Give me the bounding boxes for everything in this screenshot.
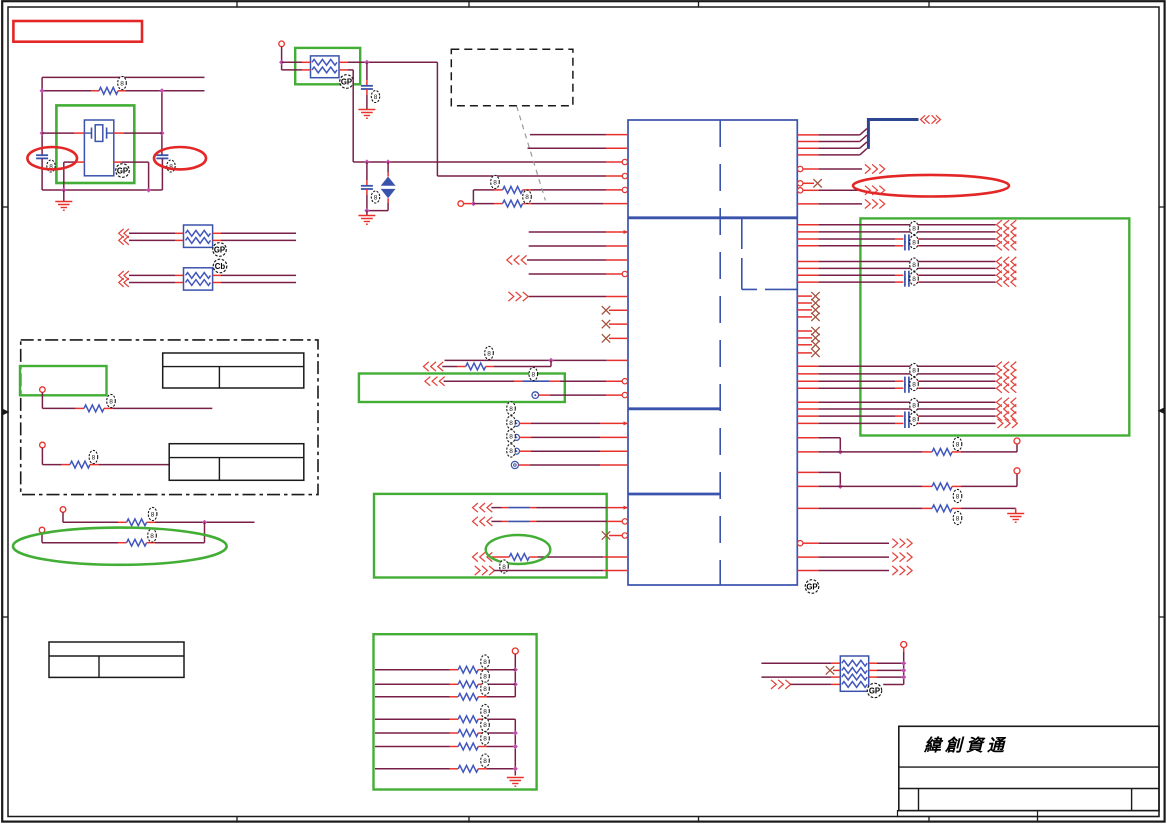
svg-text:8: 8 <box>151 511 155 518</box>
junction pin pair 2 <box>838 484 843 489</box>
wire to IC pin L8 <box>529 245 606 247</box>
pull-up terminal <box>512 648 518 654</box>
wire to IC pin L26 <box>494 570 603 572</box>
border centering arrow left y=412 <box>2 410 8 414</box>
terminal pull-up 1 <box>1014 438 1020 444</box>
wire pin R31 <box>797 556 818 558</box>
net label for pin L21 wire <box>507 444 516 457</box>
wire IC pin R17 through green box <box>797 365 818 367</box>
wire IC pin R9 through green box <box>797 224 818 226</box>
svg-text:8: 8 <box>150 533 154 540</box>
input chevrons for pin L16 <box>425 377 430 386</box>
svg-text:8: 8 <box>912 239 916 246</box>
row2 wire down and right <box>41 448 43 465</box>
IC U1 center dashed partition line <box>719 120 721 585</box>
wire IC pin R1 to bus with entry <box>797 134 818 136</box>
IC pin L16 bubble <box>622 379 627 384</box>
title block bottom strip <box>898 811 1160 817</box>
IC pin R30 bubble <box>798 541 803 546</box>
svg-text:GP: GP <box>869 686 880 695</box>
wire IC pin R15 through green box with series capacitor <box>797 274 818 276</box>
svg-text:8: 8 <box>509 406 513 413</box>
IC U1 sub-block boundary vertical <box>741 218 743 290</box>
resistor pack RP2 right wires <box>213 274 221 276</box>
pull resistor row 4 <box>375 718 450 720</box>
bottom-left revision table <box>49 642 184 677</box>
crystal pin 2 wire <box>114 132 124 134</box>
RP3 GP label <box>867 683 881 697</box>
resistor label 1 <box>953 437 962 450</box>
wire pin R26 with resistor to terminal <box>797 451 818 453</box>
wire IC pin R2 to bus with entry <box>797 141 818 143</box>
junction on rail <box>61 187 66 192</box>
svg-text:8: 8 <box>912 262 916 269</box>
svg-text:8: 8 <box>109 398 113 405</box>
capacitor C3 to ground <box>366 62 368 80</box>
svg-text:8: 8 <box>487 350 491 357</box>
title block cell divider x=1131.6 <box>1131 789 1133 811</box>
wire pack output bottom <box>339 69 348 71</box>
resistor pack RP2 left wires <box>129 274 175 276</box>
wire to IC pin L18 <box>520 422 532 424</box>
wire IC pin R11 through green box with series capacitor <box>797 238 818 240</box>
pull resistor row 3 <box>375 696 450 698</box>
IC U1 internal divider 2 (left half) <box>628 407 720 410</box>
IC U1 reference label GP <box>805 580 819 594</box>
wire pin R32 <box>797 570 818 572</box>
border tick top x=237 <box>236 1 238 7</box>
no-connect pin Rx3 <box>797 309 812 311</box>
wire to IC pin L23 with blue segment <box>491 520 501 522</box>
svg-text:8: 8 <box>509 448 513 455</box>
border tick right y=207 <box>1159 206 1165 208</box>
no-connect pin Rx6 <box>797 337 812 339</box>
border tick bottom x=929 <box>928 817 930 822</box>
tie vertical between rows <box>204 522 206 542</box>
output chevrons pin L26 <box>475 566 480 575</box>
crystal circuit top wire <box>42 76 204 78</box>
ground stem 2 <box>366 211 368 216</box>
svg-text:8: 8 <box>483 758 487 765</box>
wire to IC pin L19 <box>520 436 532 438</box>
small blue node circle pin L17 <box>532 392 539 399</box>
border tick bottom x=469 <box>468 817 470 822</box>
wire pin R8 <box>797 203 818 205</box>
wire to IC pin L20 <box>520 450 532 452</box>
svg-text:8: 8 <box>374 94 378 101</box>
left capacitor C1 <box>36 154 48 156</box>
wire to IC pin L22 with blue segment <box>491 507 501 509</box>
pull-down rail <box>514 719 516 775</box>
pull-up rail right <box>901 642 907 648</box>
junction <box>159 131 164 136</box>
border tick left y=207 <box>2 206 8 208</box>
terminal upper row <box>60 507 66 513</box>
wire IC pin R4 to bus with entry <box>797 154 818 156</box>
title block divider line 1 <box>899 766 1159 768</box>
blue node circle pin L19 <box>514 434 520 440</box>
ground for pin R29 resistor <box>1015 508 1017 513</box>
junction on rail <box>146 187 151 192</box>
svg-text:Cb: Cb <box>215 262 226 271</box>
IC pin L4 bubble <box>622 173 627 178</box>
pull resistor row 1 <box>375 669 450 671</box>
revision table column divider <box>98 656 100 677</box>
no-connect pin Rx7 <box>797 344 812 346</box>
resistor pack RP2 box <box>184 268 213 290</box>
resistor pack RP1 lines chevrons <box>119 229 124 238</box>
crystal Y1 body <box>84 120 113 176</box>
wire into pack row3 <box>761 676 831 678</box>
IC pin R7 bubble <box>798 188 803 193</box>
blue node circle pin L18 <box>514 420 520 426</box>
junction <box>40 88 45 93</box>
output chevrons pin R32 <box>892 566 897 575</box>
svg-text:8: 8 <box>483 659 487 666</box>
IC pin L24 bubble <box>622 533 627 538</box>
wire to IC pin L11 <box>529 296 606 298</box>
pull resistor row 1 label <box>481 655 490 668</box>
RP2 Cb label <box>213 259 227 273</box>
wire pin R7 <box>803 189 819 191</box>
large green annotation box right <box>860 218 1129 435</box>
junction <box>159 88 164 93</box>
series resistor pack box top middle <box>311 56 340 78</box>
IC pin L23 bubble <box>622 519 627 524</box>
wire to IC pin L21 <box>519 464 531 466</box>
svg-text:8: 8 <box>120 80 124 87</box>
pull resistor row 4 label <box>481 704 490 717</box>
vertical wire down to IC pin L4 <box>436 62 438 176</box>
svg-text:GP: GP <box>117 166 128 175</box>
svg-text:8: 8 <box>912 367 916 374</box>
wire to IC pin L9 <box>527 259 606 261</box>
terminal lower row <box>39 527 45 533</box>
border centering arrow right y=410.7 <box>1159 409 1165 413</box>
green annotation box around crystal <box>56 105 134 183</box>
input chevrons pin L23 <box>473 517 478 526</box>
junction at resistor pair <box>471 201 476 206</box>
wire row A to IC pin L15 <box>445 359 607 361</box>
wire IC pin R21 through green box <box>797 401 818 403</box>
wire to IC pin L1 <box>530 134 606 136</box>
net label for pin L18 wire <box>507 402 516 415</box>
svg-text:8: 8 <box>525 194 529 201</box>
svg-text:8: 8 <box>531 371 535 378</box>
svg-text:8: 8 <box>483 736 487 743</box>
no-connect pin Rx1 <box>797 295 812 297</box>
IC U1 internal divider 3 (left half) <box>628 493 720 496</box>
pack output wires to rail <box>869 662 877 664</box>
no-connect stub pin R6 <box>803 182 814 184</box>
crystal GP label <box>116 164 130 178</box>
junction top middle <box>279 60 284 65</box>
wire to IC pin L17 <box>539 394 550 396</box>
junction at cap C3 <box>364 60 369 65</box>
pull resistor row 7 label <box>481 754 490 767</box>
svg-text:8: 8 <box>912 416 916 423</box>
capacitor C4 <box>366 162 368 180</box>
wire IC pin R19 through green box with series capacitor <box>797 380 818 382</box>
no-connect row2 <box>826 666 834 674</box>
RP1 GP label <box>213 243 227 257</box>
svg-text:8: 8 <box>509 420 513 427</box>
resistor R-b on pin L6 line <box>473 203 494 205</box>
wire pin R27 jog down <box>797 471 818 473</box>
resistor on pin L25 line <box>491 556 509 558</box>
no-connect pin Rx8 <box>797 352 812 354</box>
net label on pin L16 line <box>529 367 538 380</box>
red ellipse highlight C2 <box>154 147 206 169</box>
terminal pull-up 2 <box>1014 468 1020 474</box>
wire to IC pin L7 <box>529 231 606 233</box>
border tick right y=617 <box>1159 616 1165 618</box>
resistor pack RP1 left wires <box>129 232 175 234</box>
wire into pack row1 <box>761 662 831 664</box>
svg-text:緯創資通: 緯創資通 <box>923 736 1008 755</box>
dash-dot annotation box left <box>21 340 318 495</box>
wire to IC pin L2 <box>528 147 607 149</box>
green annotation box bottom middle <box>374 634 537 789</box>
wire pin R30 <box>803 542 819 544</box>
wire into pack row4 <box>791 683 832 685</box>
border tick left y=617 <box>2 616 8 618</box>
wire net to IC pin L3 (from top RC node) <box>353 161 606 163</box>
row2 resistor label <box>89 450 98 463</box>
no-connect pin L24 <box>609 535 622 537</box>
wire pin R25 jog down <box>797 437 818 439</box>
table 2 in dash-dot region <box>169 444 304 481</box>
wire IC pin R18 through green box <box>797 373 818 375</box>
net label pin L26 <box>500 560 509 573</box>
C3 label <box>371 91 379 103</box>
revision table row divider <box>49 655 184 657</box>
input chevrons row B <box>423 362 428 371</box>
svg-text:8: 8 <box>912 402 916 409</box>
resistor R-a on pin L5 line <box>473 189 494 191</box>
resistor label 3 <box>953 511 962 524</box>
resistor R-a value label <box>491 175 500 188</box>
border tick bottom x=698.5 <box>698 817 700 822</box>
wire to IC pin L4 (from top-left vertical) <box>437 175 606 177</box>
no-connect pin L14 <box>609 337 628 339</box>
pull resistor row 5 label <box>481 718 490 731</box>
output chevrons pin R5 <box>865 164 870 173</box>
border tick bottom x=1037.5 <box>1037 817 1039 822</box>
resistor label <box>118 76 127 89</box>
junctions on rail <box>901 661 906 666</box>
capacitor labels group3 <box>910 363 919 376</box>
output chevrons pin R8 <box>865 199 870 208</box>
svg-text:8: 8 <box>912 276 916 283</box>
junctions on pull-up rail <box>513 667 518 672</box>
upper row wire with resistor <box>63 521 118 523</box>
junctions on pull-down rail <box>513 730 518 735</box>
svg-text:8: 8 <box>956 515 960 522</box>
wire IC pin R3 to bus with entry <box>797 147 818 149</box>
resistor pack RP2 lines chevrons <box>119 271 124 280</box>
resistor row2 <box>70 461 90 468</box>
table 1 in dash-dot region <box>163 353 304 388</box>
bus continuation chevrons <box>921 115 926 123</box>
dashed note box <box>451 49 573 105</box>
capacitor labels group4 <box>910 398 919 411</box>
border tick bottom x=237 <box>236 817 238 822</box>
IC U1 body outline <box>628 120 797 585</box>
resistor pack RP3 box <box>840 656 868 691</box>
green annotation box bottom-left of IC <box>374 494 607 578</box>
vertical wire down to RC node <box>352 70 354 162</box>
border tick top x=469 <box>468 1 470 7</box>
svg-text:GP: GP <box>341 77 352 86</box>
vertical joining resistor pair <box>472 190 474 204</box>
junction on RC line 2 <box>386 159 391 164</box>
left vertical of crystal loop <box>41 77 43 155</box>
green annotation box top middle <box>295 48 360 84</box>
svg-text:8: 8 <box>483 674 487 681</box>
input chevrons row4 <box>771 680 776 689</box>
green annotation box in dash-dot region <box>20 366 107 395</box>
C1 label <box>47 160 55 172</box>
terminal top middle <box>279 41 285 47</box>
svg-text:8: 8 <box>956 493 960 500</box>
ground symbol crystal <box>55 201 72 203</box>
wire IC pin R14 through green box <box>797 267 818 269</box>
capacitor labels group1 <box>910 221 919 234</box>
crystal circuit second wire with resistor <box>42 90 91 92</box>
red annotation rectangle top-left <box>13 21 142 42</box>
red ellipse highlight C1 <box>27 147 77 169</box>
right capacitor C2 <box>156 154 168 156</box>
IC pin R6 bubble <box>798 181 803 186</box>
terminal for resistor pair net <box>458 201 464 207</box>
pull resistor row 5 <box>375 732 450 734</box>
pull resistor row 2 label <box>481 670 490 683</box>
no-connect pin Rx5 <box>797 330 812 332</box>
blue bus top right <box>868 120 918 149</box>
svg-text:8: 8 <box>483 686 487 693</box>
upper row resistor label <box>148 507 157 520</box>
wire pin R29 with resistor to ground <box>797 507 818 509</box>
input chevrons pin L25 <box>473 552 478 561</box>
pull resistor row 6 label <box>481 732 490 745</box>
svg-text:8: 8 <box>493 179 497 186</box>
crystal Y1 symbol <box>84 132 91 134</box>
IC pin R5 bubble <box>798 166 803 171</box>
output chevrons for pin L11 <box>508 292 513 301</box>
title block divider line 2 <box>899 788 1159 790</box>
svg-text:GP: GP <box>806 582 817 591</box>
blue node circle pin L20 <box>514 448 520 454</box>
rail bottom leg <box>883 684 904 686</box>
net label for pin L20 wire <box>507 430 516 443</box>
title block bottom strip divider <box>1037 811 1039 817</box>
border tick top x=698.5 <box>698 1 700 7</box>
resistor on row B <box>442 366 457 368</box>
ground for C3 <box>358 109 375 111</box>
svg-text:8: 8 <box>509 434 513 441</box>
crystal case pin left wire <box>76 161 84 163</box>
no-connect pin Rx2 <box>797 302 812 304</box>
lower row resistor label <box>148 529 157 542</box>
net label for pin L19 wire <box>507 416 516 429</box>
resistor label 2 <box>953 489 962 502</box>
row B tie vertical <box>550 360 552 366</box>
resistor row1 <box>84 405 104 412</box>
no-connect pin L12 <box>609 309 628 311</box>
wires into pack top middle <box>282 61 302 63</box>
terminal row1 <box>40 387 46 393</box>
IC U1 internal divider 1 (full width) <box>628 216 797 219</box>
row A net label <box>485 346 494 359</box>
wire IC pin R12 through green box with series capacitor <box>797 245 818 247</box>
wire IC pin R16 through green box with series capacitor <box>797 281 818 283</box>
terminal row2 <box>40 442 46 448</box>
ground stem <box>63 190 65 202</box>
svg-text:8: 8 <box>92 454 96 461</box>
C4 label <box>371 191 379 203</box>
IC pin L5 bubble <box>622 187 627 192</box>
pull resistor row 3 label <box>481 682 490 695</box>
TVS diode D1 <box>387 162 389 172</box>
IC pin L17 bubble <box>622 392 627 397</box>
wire IC pin R20 through green box with series capacitor <box>797 387 818 389</box>
resistor pack RP1 box <box>184 225 213 247</box>
green ellipse annotation bottom-left <box>13 528 227 565</box>
border tick top x=929 <box>928 1 930 7</box>
IC pin L3 bubble <box>622 159 627 164</box>
svg-text:8: 8 <box>483 708 487 715</box>
ground symbol for C4/D1 <box>358 215 375 217</box>
output chevrons pin R31 <box>892 553 897 562</box>
bottom tie wire C4-D1 <box>367 210 388 212</box>
junction on RC line <box>364 159 369 164</box>
svg-text:8: 8 <box>912 381 916 388</box>
junction at ground stem <box>364 208 369 213</box>
row1 resistor label <box>107 394 116 407</box>
junction row A <box>548 358 553 363</box>
title block cell divider x=918.5 <box>918 789 920 811</box>
wire IC pin R24 through green box with series capacitor <box>797 422 818 424</box>
terminal stem <box>281 47 283 70</box>
ground bottom green box <box>507 777 524 779</box>
pull resistor row 2 <box>375 683 450 685</box>
resistor pack RP1 right wires <box>213 232 221 234</box>
green ellipse highlight on resistor <box>486 535 551 564</box>
pack GP label <box>340 75 354 89</box>
input chevrons for pin L9 <box>507 255 512 264</box>
junction pin pair 1 <box>838 449 843 454</box>
wire IC pin R23 through green box with series capacitor <box>797 415 818 417</box>
wire to IC pin L16 with blue segment <box>444 380 514 382</box>
input chevrons pin L22 <box>473 503 478 512</box>
wire pin R28 with resistor to terminal <box>797 485 818 487</box>
svg-text:8: 8 <box>483 722 487 729</box>
blue double-circle node pin L21 <box>511 461 518 468</box>
crystal case pin right wire <box>114 161 122 163</box>
resistor R-b value label <box>523 190 532 203</box>
junction upper row <box>202 520 207 525</box>
svg-text:8: 8 <box>956 441 960 448</box>
pull resistor row 7 <box>375 768 450 770</box>
wire pack output top <box>339 61 348 63</box>
wire IC pin R10 through green box <box>797 231 818 233</box>
output chevrons pin R30 <box>892 539 897 548</box>
no-connect pin L13 <box>609 323 628 325</box>
right vertical of crystal loop <box>161 91 163 155</box>
junction <box>40 131 45 136</box>
wire to IC pin L10 <box>529 273 606 275</box>
